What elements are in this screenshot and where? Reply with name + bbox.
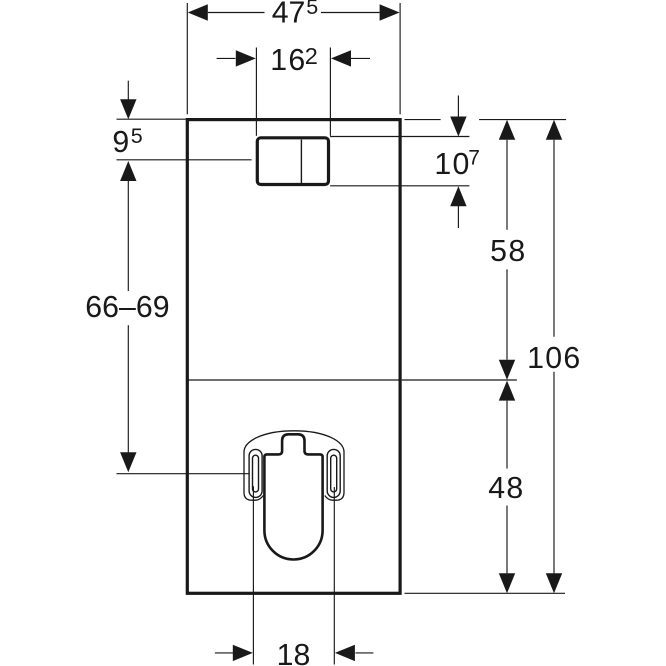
dimension 48 line bbox=[506, 401, 508, 469]
svg-text:47: 47 bbox=[272, 0, 306, 30]
dimension 58 arrow up bbox=[499, 120, 515, 140]
dimension 16.2 arrow left bbox=[236, 50, 256, 66]
dimension 9.5 line bottom bbox=[117, 159, 252, 161]
svg-text:48: 48 bbox=[488, 472, 524, 505]
dimension 16.2 extension right bbox=[329, 48, 331, 136]
module mid extension line right bbox=[402, 379, 517, 381]
dimension 48 arrow down bbox=[499, 573, 515, 593]
flush plate bottom reference line bbox=[330, 185, 469, 187]
svg-text:16: 16 bbox=[270, 44, 306, 77]
dimension 106 arrow down bbox=[546, 573, 562, 593]
dimension 16.2 extension left bbox=[255, 48, 257, 136]
dimension 18 extension left bbox=[252, 486, 254, 664]
svg-text:7: 7 bbox=[468, 146, 480, 169]
dimension 9.5 tail bbox=[127, 81, 129, 100]
dimension 47.5 arrow left bbox=[188, 4, 208, 20]
dimension 18 extension right bbox=[333, 487, 335, 665]
dimension 106 line bbox=[553, 140, 555, 337]
dimension 48 arrow up bbox=[499, 381, 515, 401]
dimension 47.5 extension right bbox=[399, 3, 401, 114]
dimension 66-69 arrow down bbox=[120, 452, 136, 472]
svg-text:106: 106 bbox=[527, 342, 581, 375]
module outline bbox=[187, 120, 400, 594]
left slot hole bbox=[253, 455, 259, 492]
dimension 10.7 tail bottom bbox=[457, 206, 459, 228]
module bottom extension line right bbox=[405, 592, 566, 594]
svg-text:5: 5 bbox=[306, 0, 318, 19]
dimension 10.7 arrow up bbox=[450, 186, 466, 206]
flush plate top reference line bbox=[330, 136, 469, 138]
dimension 10.7 arrow down bbox=[450, 117, 466, 137]
bracket dome outline bbox=[244, 431, 344, 500]
svg-text:9: 9 bbox=[112, 126, 129, 159]
dimension 18 arrow right bbox=[335, 645, 355, 661]
svg-text:66–69: 66–69 bbox=[85, 291, 169, 324]
dimension 66-69 pointer line bbox=[117, 473, 250, 475]
dimension 47.5 line bbox=[208, 12, 265, 14]
left slot outer bbox=[249, 449, 262, 497]
dimension 106 arrow up bbox=[546, 120, 562, 140]
dimension 58 arrow down bbox=[499, 360, 515, 380]
right slot outer bbox=[327, 449, 340, 497]
dimension 18 arrow left bbox=[233, 645, 253, 661]
dimension 16.2 arrow right bbox=[331, 50, 351, 66]
dimension 9.5 line top bbox=[117, 118, 186, 120]
svg-text:2: 2 bbox=[305, 43, 318, 69]
dimension 47.5 extension left bbox=[186, 3, 188, 114]
dimension 18 tails bbox=[215, 652, 234, 654]
dimension 9.5 arrow down bbox=[120, 99, 136, 119]
dimension 58 line bbox=[506, 140, 508, 230]
bowl outline with top tab bbox=[264, 434, 322, 559]
svg-text:18: 18 bbox=[277, 639, 311, 666]
module mid line bbox=[188, 379, 400, 381]
right slot hole bbox=[331, 455, 337, 492]
svg-text:5: 5 bbox=[131, 124, 143, 148]
dimension 47.5 arrow right bbox=[380, 4, 400, 20]
svg-text:58: 58 bbox=[490, 235, 526, 268]
flush actuator plate bbox=[257, 138, 328, 185]
dimension 16.2 tails bbox=[217, 57, 236, 59]
dimension 10.7 tail top bbox=[457, 96, 459, 118]
svg-text:10: 10 bbox=[434, 148, 470, 181]
module top extension line right bbox=[405, 119, 441, 121]
dimension 66-69 arrow up bbox=[120, 161, 136, 181]
dimension 66-69 line bbox=[127, 181, 129, 291]
flush plate divider bbox=[300, 140, 302, 185]
